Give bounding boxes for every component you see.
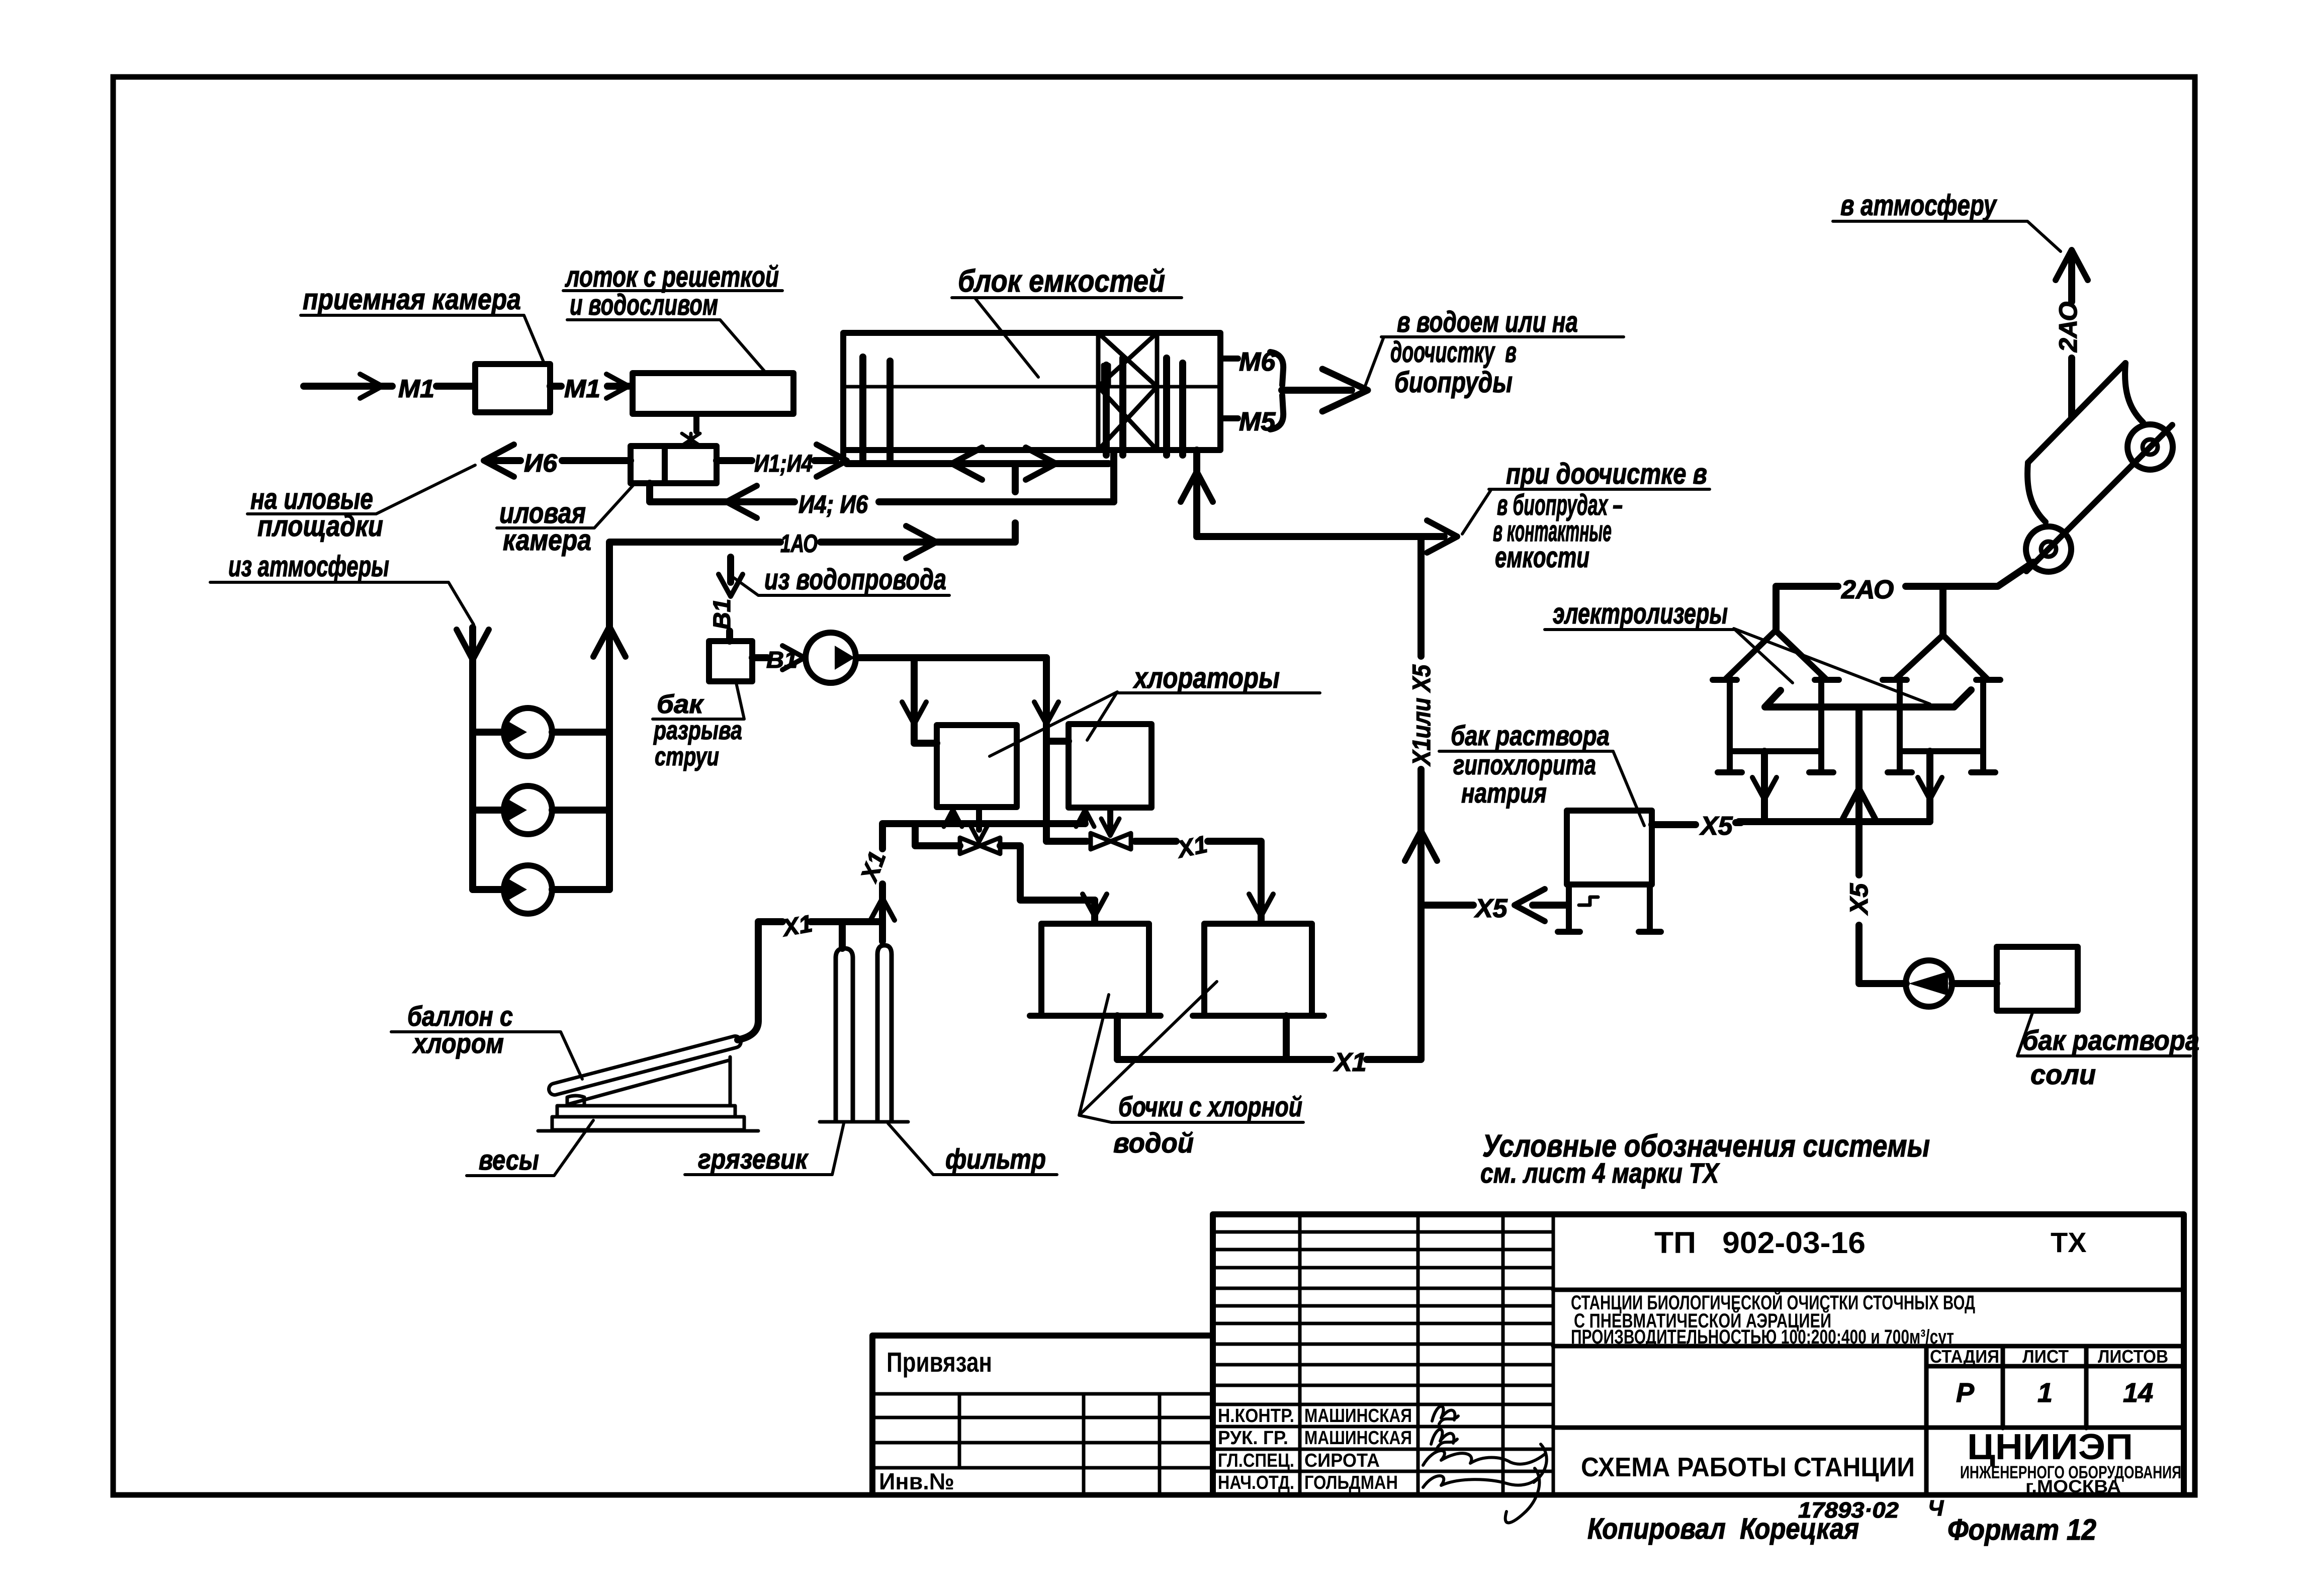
wire: В1 into break tank: [726, 631, 733, 641]
electrolyzer 1: [1713, 631, 1839, 772]
label: электролизеры: [1545, 597, 1930, 704]
wire: branch with valve 2: [1046, 841, 1261, 923]
svg-text:приемная камера: приемная камера: [303, 283, 521, 316]
svg-text:гипохлорита: гипохлорита: [1453, 749, 1596, 780]
label: на иловые площадки: [247, 465, 475, 543]
svg-text:см. лист 4 марки ТХ: см. лист 4 марки ТХ: [1480, 1157, 1720, 1189]
svg-text:бак: бак: [657, 690, 704, 719]
wire: И4;И6 return line: [650, 452, 1114, 502]
svg-text:г.МОСКВА: г.МОСКВА: [2025, 1477, 2121, 1496]
arrow central up: [1843, 788, 1875, 819]
wire: chlorine water out of chlorinator 1: [976, 807, 982, 830]
svg-text:Х5: Х5: [1474, 894, 1508, 923]
wire: electrolyzer 2 outlet: [1926, 751, 1933, 820]
svg-text:Инв.№: Инв.№: [879, 1468, 954, 1494]
svg-text:натрия: натрия: [1461, 777, 1547, 809]
label: из атмосферы: [210, 550, 474, 625]
svg-text:струи: струи: [655, 742, 719, 771]
svg-text:ТХ: ТХ: [2051, 1226, 2087, 1258]
svg-text:Ч: Ч: [1928, 1496, 1944, 1521]
tank block left wall extension: [840, 450, 846, 463]
svg-text:И6: И6: [524, 449, 558, 477]
wire: raw sewage inlet М1: [304, 383, 474, 390]
pump P1 (water): [806, 633, 856, 683]
svg-text:СИРОТА: СИРОТА: [1304, 1450, 1380, 1471]
tank internal pipe 2: [887, 361, 894, 462]
wire: gas stub up into chlorinator 1: [950, 812, 956, 824]
svg-text:НАЧ.ОТД.: НАЧ.ОТД.: [1218, 1472, 1294, 1493]
wire: treated water outlet arrow: [1282, 387, 1352, 394]
arrow under-channel left: [952, 448, 982, 480]
pump P2 (salt solution): [1906, 960, 1952, 1007]
wire: Х5 hypochlorite to riser: [1421, 902, 1568, 909]
label: бочки с хлорной водой: [1079, 982, 1303, 1159]
label: грязевик: [685, 1123, 844, 1175]
jet-break tank (бак разрыва струи): [709, 641, 752, 681]
tank block (блок емкостей) outer: [843, 333, 1220, 450]
arrow treated water (big): [1322, 369, 1368, 411]
arrow М1 to trough: [606, 374, 629, 398]
svg-text:ГОЛЬДМАН: ГОЛЬДМАН: [1304, 1472, 1398, 1493]
dirt trap column (грязевик): [836, 948, 853, 1120]
wire: gas riser from filter: [879, 884, 886, 941]
wire: М6 outlet stub: [1220, 356, 1238, 362]
svg-text:из атмосферы: из атмосферы: [228, 550, 389, 583]
arrow on inlet М1: [360, 374, 382, 398]
title block outer: [872, 1214, 2184, 1494]
arrow Х5 left: [1515, 889, 1545, 921]
arrow under-channel right: [1026, 448, 1056, 480]
svg-text:в водоем или на: в водоем или на: [1397, 306, 1578, 338]
sodium hypochlorite solution tank: [1558, 811, 1661, 932]
trough with bar screen and weir (лоток с решеткой и водосливом): [633, 373, 793, 414]
svg-text:И4; И6: И4; И6: [799, 490, 868, 518]
barrel 1 with chlorine water: [1030, 924, 1161, 1016]
wire: 1АО air main: [609, 523, 1015, 890]
svg-text:В1: В1: [709, 599, 736, 630]
wire: 2АО vent riser: [2068, 254, 2075, 416]
tank aeration cross section: [1098, 333, 1157, 450]
svg-text:ТП 902-03-16: ТП 902-03-16: [1654, 1226, 1866, 1260]
svg-text:СТАДИЯ: СТАДИЯ: [1930, 1346, 1999, 1367]
scraper bar inside electrolyzers: [1765, 690, 1971, 707]
scales support (весы): [552, 1057, 744, 1130]
blower B3: [473, 865, 609, 914]
wire: pump to salt tank: [1952, 980, 1997, 987]
wire: water drop to chlorinator 2 / ejector: [1046, 658, 1069, 841]
receiving chamber (приемная камера): [475, 364, 550, 412]
svg-text:ЦНИИЭП: ЦНИИЭП: [1967, 1427, 2133, 1467]
wire: chlorine water out of chlorinator 2: [1107, 808, 1113, 829]
svg-text:ГЛ.СПЕЦ.: ГЛ.СПЕЦ.: [1218, 1450, 1294, 1471]
svg-text:2АО: 2АО: [1841, 575, 1894, 604]
wire: И1;И4 from sludge chamber to tank block: [717, 457, 836, 464]
signature squiggles: [1423, 1406, 1547, 1523]
svg-text:из водопровода: из водопровода: [764, 563, 946, 596]
fan F2 (upper): [2128, 424, 2173, 470]
label: иловая камера: [497, 484, 635, 557]
label: приемная камера: [301, 283, 544, 363]
label: хлораторы: [990, 662, 1320, 756]
svg-text:Х1: Х1: [779, 910, 815, 942]
wire: water drop to chlorinator 1: [914, 658, 937, 743]
approvals grid rows: [1213, 1232, 1553, 1471]
svg-text:электролизеры: электролизеры: [1553, 597, 1728, 630]
wire: 2АО gas line: [1776, 562, 2033, 635]
valve V1 (bowtie): [960, 838, 1000, 854]
wire: chlorine feed down from tank: [1193, 450, 1200, 537]
wire: chlorine gas manifold Х1: [882, 824, 1085, 849]
chlorine cylinder (баллон с хлором) outline: [555, 1042, 735, 1089]
svg-text:бочки с хлорной: бочки с хлорной: [1118, 1091, 1302, 1122]
filter column (фильтр): [877, 945, 892, 1120]
arrow air intake down: [457, 630, 489, 660]
label: весы: [467, 1120, 593, 1176]
svg-text:Н.КОНТР.: Н.КОНТР.: [1218, 1405, 1294, 1427]
wire: gas stub up into chlorinator 2: [1082, 812, 1088, 824]
blower B1: [473, 708, 609, 756]
arrow И6 (left): [484, 445, 514, 477]
tank internal pipe 1: [859, 357, 866, 462]
svg-text:соли: соли: [2030, 1058, 2096, 1090]
chlorinator 2: [1069, 724, 1151, 808]
barrel 2 with chlorine water: [1193, 924, 1324, 1016]
svg-text:при доочистке в: при доочистке в: [1506, 458, 1707, 490]
blower B2: [473, 786, 609, 834]
organization ЦНИИЭП: [1960, 1427, 2181, 1496]
svg-text:и водосливом: и водосливом: [570, 289, 718, 321]
label: из водопровода: [733, 563, 949, 596]
svg-text:СХЕМА РАБОТЫ СТАНЦИИ: СХЕМА РАБОТЫ СТАНЦИИ: [1581, 1452, 1915, 1482]
arrow down water 2: [1034, 702, 1058, 724]
svg-text:емкости: емкости: [1495, 541, 1589, 574]
label: баллон с хлором: [391, 1000, 582, 1079]
svg-text:Х5: Х5: [1845, 883, 1873, 916]
svg-text:доочистку в: доочистку в: [1390, 336, 1517, 369]
wire: barrel 1 outlet: [1114, 1016, 1121, 1059]
svg-text:бак раствора: бак раствора: [1451, 720, 1610, 751]
svg-text:хлораторы: хлораторы: [1132, 662, 1280, 694]
wire: И6 to sludge beds: [490, 457, 631, 464]
wire: feed into barrel 1: [1091, 900, 1098, 923]
electrolyzer 2: [1883, 635, 2000, 772]
wire: central Х5 feed: [1859, 707, 1906, 984]
tank internal pipe 5: [1163, 358, 1170, 455]
svg-text:РУК. ГР.: РУК. ГР.: [1218, 1428, 1288, 1449]
header separator: [1553, 1288, 2184, 1292]
svg-text:1АО: 1АО: [780, 529, 818, 558]
svg-text:МАШИНСКАЯ: МАШИНСКАЯ: [1304, 1428, 1412, 1449]
approver names: [1304, 1405, 1412, 1493]
salt solution tank (бак раствора соли): [1997, 947, 2078, 1011]
svg-text:в атмосферу: в атмосферу: [1840, 189, 1997, 222]
arrow vent up: [2056, 250, 2088, 280]
wire: barrel 2 outlet: [1283, 1016, 1290, 1059]
svg-text:МАШИНСКАЯ: МАШИНСКАЯ: [1304, 1405, 1412, 1427]
label: фильтр: [888, 1123, 1057, 1175]
wire: Х5 manifold under electrolyzers: [1739, 818, 1930, 825]
sludge chamber (иловая камера): [631, 446, 717, 483]
wire: stub under-channel to И4;И6: [1012, 465, 1019, 492]
wire: Х1 chlorine water manifold: [1117, 1041, 1421, 1059]
svg-text:бак раствора: бак раствора: [2022, 1024, 2199, 1056]
label: при доочистке в биопрудах - в контактные емкости: [1462, 458, 1710, 574]
svg-text:Привязан: Привязан: [887, 1346, 992, 1378]
wire: Х5 tank to electrolyzers: [1652, 823, 1741, 825]
wire: Х1 from cylinder riser: [738, 922, 782, 1040]
tank internal pipe 4: [1119, 358, 1126, 455]
stage/sheet grid: [1553, 1346, 2184, 1494]
label: в водоем или на доочистку в биопруды: [1365, 306, 1624, 399]
wire: М5 outlet stub: [1220, 415, 1238, 421]
svg-text:биопруды: биопруды: [1394, 366, 1513, 399]
arrow 1АО: [906, 526, 936, 558]
valve mark above sludge chamber: [682, 433, 700, 446]
svg-text:И1;И4: И1;И4: [754, 451, 813, 477]
fan F1 (lower): [2026, 526, 2071, 572]
svg-text:Р: Р: [1956, 1378, 1975, 1408]
wire: air intake header (left): [469, 628, 476, 890]
wire: air discharge header (right): [606, 625, 613, 890]
привязан box and lower-left table: [872, 1394, 1213, 1494]
svg-text:блок емкостей: блок емкостей: [958, 264, 1165, 299]
svg-text:М1: М1: [564, 375, 600, 403]
label: бак раствора гипохлорита натрия: [1439, 720, 1644, 826]
wire: tank under-channel: [847, 460, 1109, 467]
valve V2 (bowtie): [1091, 833, 1131, 849]
wire: line to contact tanks: [1197, 533, 1444, 540]
values Р 1 14: [1956, 1378, 2153, 1408]
tank internal pipe 3: [1103, 365, 1110, 455]
wire: stub from trough down to sludge chamber: [693, 414, 699, 431]
arrow water down: [719, 574, 743, 596]
wire: Х1 into dirt trap: [811, 922, 882, 948]
arrow to contact tanks: [1427, 520, 1457, 553]
arrow into barrel 2: [1249, 894, 1273, 916]
arrow И1;И4: [817, 445, 847, 477]
svg-text:2АО: 2АО: [2054, 302, 2082, 352]
arrow riser up: [1405, 831, 1437, 861]
svg-text:водой: водой: [1113, 1127, 1194, 1159]
arrow air up: [593, 627, 626, 657]
legend note: Условные обозначения системы см.лист 4 марки ТХ: [1480, 1129, 1930, 1189]
wire: Х1 или Х5 riser: [1417, 537, 1425, 1041]
svg-text:Х1или Х5: Х1или Х5: [1407, 664, 1436, 767]
chlorinator 1: [937, 725, 1017, 807]
wire: water supply В1 arrow: [727, 557, 734, 582]
svg-text:ЛИСТ: ЛИСТ: [2022, 1346, 2069, 1367]
wire: branch with valve 1: [915, 824, 1095, 900]
arrow gas up: [870, 898, 895, 920]
tank internal pipe 6: [1179, 363, 1186, 455]
label: лоток с решеткой и водосливом: [563, 260, 782, 372]
label: в атмосферу: [1833, 189, 2061, 251]
fan duct (parallelogram): [2027, 363, 2143, 522]
ground line under columns: [820, 1120, 908, 1124]
svg-text:весы: весы: [479, 1144, 539, 1176]
bracket joining М6 and М5: [1270, 352, 1283, 429]
approvals grid columns: [1300, 1214, 1553, 1494]
label: бак раствора соли: [2017, 1013, 2199, 1090]
arrow up into tank: [1181, 472, 1213, 502]
svg-text:Формат 12: Формат 12: [1947, 1514, 2096, 1546]
label: бак разрыва струи: [653, 683, 744, 771]
label: блок емкостей: [952, 264, 1182, 377]
svg-text:М1: М1: [398, 375, 434, 403]
svg-text:грязевик: грязевик: [698, 1143, 809, 1175]
wire: break tank to pump В1: [752, 654, 767, 661]
labels СТАДИЯ ЛИСТ ЛИСТОВ: [1930, 1346, 2168, 1367]
tank block mid water line: [843, 385, 1220, 389]
ground line under scales: [538, 1129, 758, 1133]
svg-text:14: 14: [2123, 1378, 2153, 1408]
arrow down water 1: [902, 702, 926, 724]
arrow И4;И6 (left): [727, 486, 757, 518]
wire: water line to chlorinators: [856, 654, 1046, 661]
wire: М1 between chambers: [550, 383, 629, 390]
approver role labels: [1218, 1405, 1294, 1493]
wire: electrolyzer 1 outlet: [1761, 751, 1768, 820]
project title lines: [1571, 1291, 1975, 1348]
svg-text:Х5: Х5: [1699, 812, 1733, 841]
svg-text:фильтр: фильтр: [945, 1143, 1046, 1175]
svg-text:ЛИСТОВ: ЛИСТОВ: [2098, 1346, 2168, 1367]
svg-text:1: 1: [2037, 1378, 2053, 1408]
svg-text:Х1: Х1: [1333, 1048, 1367, 1077]
fan axis line: [2026, 425, 2172, 571]
svg-text:Копировал Корецкая: Копировал Корецкая: [1587, 1513, 1859, 1545]
